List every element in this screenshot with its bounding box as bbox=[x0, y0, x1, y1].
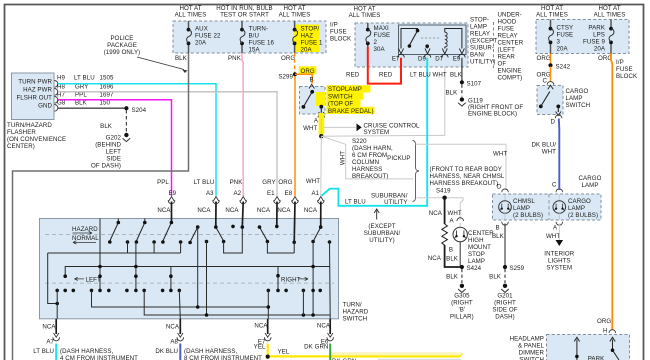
wire vertical V2 bbox=[135, 242, 137, 290]
highlight stoplamp switch label bbox=[327, 85, 375, 114]
svg-text:OF DASH): OF DASH) bbox=[91, 163, 121, 170]
svg-text:H9: H9 bbox=[57, 75, 66, 82]
wire WHT S220 down to A1 bbox=[320, 136, 323, 196]
svg-text:PILLAR): PILLAR) bbox=[450, 314, 474, 321]
splice S419 bbox=[442, 196, 446, 200]
CARGO LAMP title bbox=[579, 175, 602, 189]
svg-text:BLK: BLK bbox=[175, 55, 188, 62]
svg-text:B: B bbox=[496, 225, 500, 232]
svg-text:ENGINE BLOCK): ENGINE BLOCK) bbox=[468, 110, 517, 117]
wire DK BLU A8 down bbox=[179, 344, 181, 360]
svg-text:FLSHR OUT: FLSHR OUT bbox=[16, 94, 52, 101]
entry wires into box (NCA) bbox=[172, 202, 321, 243]
dashed contact line (lower) bbox=[45, 282, 334, 284]
svg-text:PNK: PNK bbox=[230, 179, 244, 186]
svg-text:6 CM FROM: 6 CM FROM bbox=[352, 152, 387, 159]
svg-text:HARNESS: HARNESS bbox=[352, 166, 382, 173]
svg-text:BLOCK: BLOCK bbox=[330, 36, 352, 43]
ground G202 bbox=[91, 133, 130, 170]
svg-text:BLK: BLK bbox=[450, 72, 463, 79]
svg-text:DK BLU: DK BLU bbox=[155, 348, 178, 355]
svg-text:NCA: NCA bbox=[257, 207, 271, 214]
svg-text:CARGO: CARGO bbox=[579, 175, 602, 182]
resistor (NCA branch) bbox=[428, 198, 462, 267]
header HOT AT ALL TIMES (park) bbox=[594, 5, 626, 19]
lower deck contact dots bbox=[55, 289, 322, 293]
svg-text:PARK: PARK bbox=[588, 356, 605, 360]
svg-text:HAZARD: HAZARD bbox=[72, 226, 98, 233]
svg-text:WHT: WHT bbox=[542, 149, 556, 156]
svg-text:LEFT: LEFT bbox=[86, 276, 102, 283]
svg-text:STOPLAMP: STOPLAMP bbox=[328, 86, 362, 93]
lamps box CHMSL + CARGO bbox=[493, 194, 602, 220]
svg-text:LT BLU: LT BLU bbox=[194, 179, 215, 186]
wire U-connector A3/A2 bbox=[224, 229, 243, 254]
svg-text:SYSTEM: SYSTEM bbox=[364, 129, 390, 136]
svg-text:20A: 20A bbox=[195, 40, 207, 47]
splice S259 bbox=[503, 265, 525, 272]
svg-text:NCA: NCA bbox=[42, 324, 56, 331]
splice S220 bbox=[319, 134, 323, 138]
svg-text:FLASHER: FLASHER bbox=[7, 129, 36, 136]
svg-text:ALL TIMES: ALL TIMES bbox=[594, 12, 626, 19]
splice S107 bbox=[460, 80, 482, 87]
wire vertical left-contact drop bbox=[206, 242, 208, 316]
svg-text:RELAY: RELAY bbox=[470, 31, 490, 38]
wire bus (contact stubs to bus) bbox=[48, 242, 181, 304]
svg-text:NCA: NCA bbox=[277, 207, 291, 214]
wire YEL E7 to bottom run bbox=[266, 344, 462, 360]
svg-text:ORG: ORG bbox=[597, 318, 611, 325]
svg-text:E9: E9 bbox=[169, 190, 177, 197]
svg-text:BLK: BLK bbox=[492, 233, 505, 240]
svg-text:TURN-: TURN- bbox=[249, 26, 269, 33]
hazard/normal legend bbox=[72, 226, 99, 244]
svg-text:RIGHT: RIGHT bbox=[281, 276, 301, 283]
svg-text:LAMP: LAMP bbox=[470, 24, 487, 31]
svg-text:D: D bbox=[550, 118, 555, 125]
svg-text:HAZ PWR: HAZ PWR bbox=[23, 86, 52, 93]
svg-text:S299: S299 bbox=[278, 73, 293, 80]
underhood fuse relay center box bbox=[355, 23, 468, 67]
svg-text:UTILITY): UTILITY) bbox=[470, 59, 496, 66]
header HOT AT ALL TIMES (ctsy) bbox=[536, 5, 568, 19]
svg-text:SUBURBAN/: SUBURBAN/ bbox=[364, 230, 401, 237]
svg-text:UNDER-: UNDER- bbox=[498, 12, 522, 19]
svg-text:ALL TIMES: ALL TIMES bbox=[175, 12, 207, 19]
wire BLK aux fuse down-around-left bbox=[13, 53, 189, 360]
svg-text:TEST OR START: TEST OR START bbox=[220, 12, 269, 19]
svg-text:(2 BULBS): (2 BULBS) bbox=[568, 212, 598, 219]
stop lamp relay label bbox=[470, 17, 497, 66]
relay terminal arrows E7 D9 D7 E9 bbox=[398, 49, 466, 58]
svg-text:D7: D7 bbox=[435, 56, 444, 63]
svg-text:UTILITY: UTILITY bbox=[384, 199, 407, 206]
wire WHT S220 to relay D7 bbox=[321, 58, 445, 136]
svg-text:YEL: YEL bbox=[278, 349, 290, 356]
entry labels GRY E1 bbox=[257, 179, 276, 214]
svg-text:LAMP: LAMP bbox=[581, 182, 598, 189]
svg-text:DK BLU/: DK BLU/ bbox=[532, 142, 557, 149]
svg-text:WHT: WHT bbox=[448, 210, 462, 217]
wire WHT S220 dash-harness branch bbox=[321, 136, 413, 179]
svg-text:E7: E7 bbox=[392, 56, 400, 63]
header HOT AT ALL TIMES (maxi) bbox=[349, 6, 381, 20]
svg-text:BLK: BLK bbox=[446, 90, 459, 97]
left legend arrow bbox=[75, 276, 102, 283]
switch blades (upper deck) bbox=[110, 219, 321, 243]
headlamp switch label bbox=[510, 336, 545, 360]
svg-text:CHMSL: CHMSL bbox=[513, 198, 535, 205]
splice S299 bbox=[278, 72, 297, 80]
entry labels PNK A2 bbox=[225, 179, 243, 214]
svg-text:STOP: STOP bbox=[468, 251, 485, 258]
wire LT BLU A7 down bbox=[55, 344, 57, 360]
wire PNK turn fuse to A2 bbox=[228, 53, 243, 196]
svg-text:BAN/: BAN/ bbox=[470, 52, 485, 59]
stoplamp switch A terminal bbox=[314, 105, 325, 125]
svg-text:G305: G305 bbox=[454, 293, 470, 300]
exit E7 connector bbox=[254, 319, 271, 351]
fuse TURN-B/U FUSE 16 15A bbox=[240, 21, 274, 54]
front-to-rear harness note bbox=[430, 166, 505, 195]
wire DK GRN E6 down bbox=[329, 344, 331, 360]
ground G305 bbox=[450, 284, 474, 321]
wire ORG ctsy fuse to S242 bbox=[537, 54, 551, 65]
svg-text:SUBUR-: SUBUR- bbox=[470, 45, 494, 52]
svg-text:RELAY: RELAY bbox=[498, 33, 518, 40]
svg-text:SWITCH: SWITCH bbox=[343, 316, 368, 323]
svg-text:B: B bbox=[310, 77, 314, 84]
svg-text:NCA: NCA bbox=[428, 255, 442, 262]
SUBURBAN/UTILITY label bbox=[371, 193, 408, 206]
CHMSL lamp terminals D/B bbox=[502, 189, 509, 225]
svg-text:DASH): DASH) bbox=[495, 314, 515, 321]
svg-text:(DASH HARNESS,: (DASH HARNESS, bbox=[184, 348, 238, 355]
splice S242 bbox=[548, 63, 570, 70]
turn/hazard switch label bbox=[343, 302, 369, 323]
wire WHT stoplamp A to S220 bbox=[303, 119, 321, 136]
svg-text:E1: E1 bbox=[267, 190, 275, 197]
svg-text:HEADLAMP: HEADLAMP bbox=[510, 336, 544, 343]
svg-text:B/U: B/U bbox=[249, 33, 259, 40]
svg-text:ALL TIMES: ALL TIMES bbox=[279, 12, 311, 19]
wire vertical V3 bbox=[170, 267, 172, 291]
stationary contact dots (upper deck) bbox=[108, 240, 331, 245]
svg-text:NCA: NCA bbox=[317, 323, 331, 330]
svg-text:DIMMER: DIMMER bbox=[519, 350, 545, 357]
svg-text:OF: OF bbox=[498, 61, 507, 68]
header HOT AT ALL TIMES (stop/haz) bbox=[279, 5, 311, 19]
svg-text:(DASH HARNESS,: (DASH HARNESS, bbox=[60, 348, 114, 355]
svg-text:LPS: LPS bbox=[593, 32, 605, 39]
svg-text:WHT: WHT bbox=[493, 151, 507, 158]
wire BLK S424 to G305 (dashed) bbox=[446, 269, 462, 283]
svg-text:MAXI: MAXI bbox=[374, 25, 390, 32]
svg-text:PICKUP: PICKUP bbox=[387, 155, 410, 162]
svg-text:COMPT): COMPT) bbox=[498, 75, 523, 82]
fuse MAXI FUSE 2 30A bbox=[366, 23, 390, 53]
svg-text:LAMP: LAMP bbox=[568, 205, 585, 212]
svg-text:LIGHTS: LIGHTS bbox=[548, 258, 571, 265]
svg-text:HAZARD: HAZARD bbox=[343, 309, 369, 316]
stop lamp relay U1 bbox=[399, 25, 467, 55]
svg-text:ENGINE: ENGINE bbox=[498, 68, 522, 75]
svg-text:FUSE 22: FUSE 22 bbox=[195, 33, 221, 40]
svg-text:WHT: WHT bbox=[433, 72, 447, 79]
svg-text:D: D bbox=[497, 184, 502, 191]
wire ORG park fuse to headlamp dimmer H bbox=[597, 54, 612, 335]
entry labels ORG E8 bbox=[277, 179, 292, 214]
svg-text:LAMP: LAMP bbox=[468, 258, 485, 265]
svg-text:(DASH HARN,: (DASH HARN, bbox=[352, 145, 393, 152]
splice S424 bbox=[460, 265, 482, 272]
svg-text:H: H bbox=[603, 328, 608, 335]
svg-text:ALL TIMES: ALL TIMES bbox=[349, 12, 381, 19]
svg-text:PNK: PNK bbox=[228, 55, 242, 62]
highlight stop/haz fuse bbox=[294, 25, 320, 53]
svg-text:B: B bbox=[449, 247, 453, 254]
svg-text:CENTER): CENTER) bbox=[7, 143, 35, 150]
junction dots on hazard feed bbox=[98, 265, 315, 269]
underhood fuse relay center label bbox=[498, 12, 524, 82]
svg-text:LT BLU: LT BLU bbox=[410, 72, 431, 79]
svg-text:I/P: I/P bbox=[330, 22, 338, 29]
wire BLK S204 to G202 (dashed) bbox=[100, 110, 126, 132]
fuse AUX FUSE 22 20A bbox=[187, 21, 221, 53]
wire ORG stop fuse to S299 (dashed) bbox=[281, 53, 295, 73]
wire A7 drop bbox=[57, 290, 303, 318]
svg-text:S424: S424 bbox=[467, 265, 482, 272]
svg-text:HAZ: HAZ bbox=[301, 33, 314, 40]
svg-text:HARNESS BREAKOUT): HARNESS BREAKOUT) bbox=[430, 180, 499, 187]
svg-text:I/P: I/P bbox=[616, 59, 624, 66]
svg-text:(2 BULBS): (2 BULBS) bbox=[513, 212, 543, 219]
center high mount stop lamp bbox=[446, 218, 494, 267]
svg-text:3: 3 bbox=[557, 39, 561, 46]
svg-text:NCA: NCA bbox=[254, 323, 268, 330]
turn/hazard flasher bbox=[7, 73, 66, 150]
svg-text:ORG: ORG bbox=[537, 55, 551, 62]
svg-text:(EXCEPT: (EXCEPT bbox=[368, 223, 395, 230]
exit A7 connector bbox=[33, 319, 59, 355]
highlight ORG label at S299 bbox=[299, 66, 317, 74]
entry labels WHT A1 bbox=[304, 178, 320, 214]
svg-text:(BEHIND: (BEHIND bbox=[95, 142, 121, 149]
wire PPL flasher to E9 bbox=[58, 100, 172, 196]
harness brace bbox=[413, 141, 420, 202]
wire ORG S242 to cargo lamp switch C bbox=[537, 67, 554, 85]
svg-text:FUSE: FUSE bbox=[374, 32, 391, 39]
svg-text:SWITCH: SWITCH bbox=[328, 93, 353, 100]
svg-text:PACKAGE: PACKAGE bbox=[107, 42, 137, 49]
svg-text:PARK: PARK bbox=[588, 25, 605, 32]
wire RED maxi fuse to E7 bbox=[346, 47, 401, 84]
svg-text:HIGH: HIGH bbox=[468, 237, 484, 244]
svg-text:YEL: YEL bbox=[254, 343, 266, 350]
svg-text:STOP-: STOP- bbox=[470, 17, 489, 24]
svg-text:NCA: NCA bbox=[166, 324, 180, 331]
svg-text:SIDE: SIDE bbox=[106, 156, 121, 163]
labels NCA WHT at S419 bbox=[429, 210, 462, 225]
svg-text:15A: 15A bbox=[249, 47, 261, 54]
wire BLK S259 to G201 (dashed) bbox=[489, 269, 505, 283]
lower link dots bbox=[55, 302, 315, 317]
svg-text:LT BLU: LT BLU bbox=[74, 75, 95, 82]
highlight WHT wire bar bbox=[319, 113, 325, 135]
svg-text:TURN/: TURN/ bbox=[343, 302, 362, 309]
svg-text:FUSE 1: FUSE 1 bbox=[301, 40, 323, 47]
divider dashed line bbox=[493, 22, 495, 68]
svg-text:SIDE OF: SIDE OF bbox=[492, 307, 517, 314]
svg-text:INTERIOR: INTERIOR bbox=[544, 251, 574, 258]
svg-text:A: A bbox=[450, 218, 455, 225]
svg-text:GRY: GRY bbox=[262, 179, 275, 186]
ground G119 bbox=[458, 97, 523, 117]
svg-text:ORG: ORG bbox=[281, 55, 295, 62]
svg-text:BRAKE PEDAL): BRAKE PEDAL) bbox=[328, 108, 374, 115]
wire U-connector E1/E8 bbox=[267, 242, 294, 254]
svg-text:E9: E9 bbox=[453, 56, 461, 63]
S220 note bbox=[352, 138, 393, 180]
svg-text:CARGO: CARGO bbox=[566, 88, 589, 95]
svg-text:FUSE: FUSE bbox=[557, 32, 574, 39]
svg-text:(ON CONVENIENCE: (ON CONVENIENCE bbox=[7, 136, 66, 143]
svg-text:LEFT: LEFT bbox=[106, 149, 122, 156]
svg-text:G201: G201 bbox=[497, 293, 513, 300]
svg-text:20A: 20A bbox=[594, 46, 606, 53]
svg-text:CENTER: CENTER bbox=[498, 40, 524, 47]
svg-text:S242: S242 bbox=[556, 63, 571, 70]
CARGO lamp terminals C/A bbox=[556, 189, 563, 225]
police package leader line bbox=[137, 57, 188, 73]
svg-text:(LEFT: (LEFT bbox=[498, 47, 516, 54]
wire BLK CHMSL B to S259 bbox=[492, 224, 505, 266]
header HOT IN RUN BULB TEST OR START bbox=[216, 5, 272, 19]
svg-text:WHT: WHT bbox=[303, 125, 317, 132]
wire DK BLU/WHT cargo switch D to cargo lamp C bbox=[532, 115, 562, 190]
svg-text:BLOCK: BLOCK bbox=[616, 73, 638, 80]
svg-text:SWITCH: SWITCH bbox=[566, 102, 591, 109]
wire BLK S107 to G119 (dashed) bbox=[446, 85, 462, 97]
fuse STOP/HAZ FUSE 1 20A bbox=[293, 21, 323, 54]
svg-text:A7: A7 bbox=[46, 339, 54, 346]
wire vertical 4th blade drop bbox=[197, 227, 199, 307]
svg-text:FUSE 9: FUSE 9 bbox=[583, 39, 605, 46]
pin labels H9 H8 H7 G8 bbox=[57, 75, 66, 107]
headlamp & panel dimmer switch bbox=[547, 330, 630, 360]
svg-text:A3: A3 bbox=[206, 190, 214, 197]
svg-text:S220: S220 bbox=[352, 138, 367, 145]
svg-text:BLK: BLK bbox=[489, 274, 502, 281]
wire labels LT BLU 1505 / GRY 1696 / PPL 1697 / BLK 150 bbox=[74, 75, 114, 107]
mid contact dots (y276) bbox=[63, 274, 279, 278]
svg-text:PPL: PPL bbox=[157, 179, 169, 186]
svg-text:NCA: NCA bbox=[157, 207, 171, 214]
svg-text:LAMP: LAMP bbox=[566, 95, 583, 102]
dashed contact line (upper) bbox=[45, 234, 334, 236]
svg-text:4 CM FROM INSTRUMENT: 4 CM FROM INSTRUMENT bbox=[60, 355, 138, 360]
svg-text:S259: S259 bbox=[510, 265, 525, 272]
right legend arrow bbox=[281, 276, 308, 283]
exit E6 connector bbox=[304, 319, 333, 351]
svg-text:TURN/HAZARD: TURN/HAZARD bbox=[7, 122, 52, 129]
svg-text:LT BLU: LT BLU bbox=[345, 199, 366, 206]
svg-text:POLICE: POLICE bbox=[110, 35, 133, 42]
wire vertical right end drop to E6 bbox=[329, 242, 332, 319]
svg-text:8 CM FROM INSTRUMENT: 8 CM FROM INSTRUMENT bbox=[184, 355, 262, 360]
turn/hazard switch box bbox=[40, 219, 339, 319]
wire right U-drop bbox=[277, 267, 279, 291]
svg-text:BLK: BLK bbox=[446, 256, 459, 263]
wire L3 lower link bbox=[144, 290, 330, 315]
svg-text:20A: 20A bbox=[557, 46, 569, 53]
wire LT BLU flasher to A3 bbox=[58, 84, 216, 196]
I/P fuse block box 1 bbox=[173, 21, 326, 53]
wire LT BLU relay D9 to turn/hazard A1 bbox=[322, 58, 431, 206]
svg-text:(FRONT TO REAR BODY: (FRONT TO REAR BODY bbox=[430, 166, 503, 173]
svg-text:'B': 'B' bbox=[459, 307, 466, 314]
svg-text:STOP/: STOP/ bbox=[301, 26, 320, 33]
wire WHT brace to CHMSL lamp D bbox=[416, 144, 507, 190]
entry labels PPL E9 bbox=[157, 179, 177, 214]
svg-text:WHT: WHT bbox=[340, 151, 347, 165]
wire L2 lower link bbox=[92, 290, 269, 318]
svg-text:NCA: NCA bbox=[225, 207, 239, 214]
svg-text:HOOD: HOOD bbox=[498, 19, 517, 26]
fuse CTSY FUSE 3 20A bbox=[549, 20, 574, 54]
dash harness note 2 bbox=[184, 348, 262, 360]
svg-text:SYSTEM: SYSTEM bbox=[546, 265, 572, 272]
wire vertical right blade drop bbox=[312, 242, 314, 316]
wire ORG S299 to stoplamp switch B bbox=[295, 68, 315, 84]
wire BLK relay E9 to S107 bbox=[450, 58, 463, 81]
svg-text:FUSE 16: FUSE 16 bbox=[249, 40, 275, 47]
wire WHT cargo A to interior lights bbox=[544, 224, 574, 272]
svg-text:RED: RED bbox=[346, 72, 360, 79]
svg-text:NCA: NCA bbox=[197, 207, 211, 214]
fuse PARK LPS FUSE 9 20A bbox=[583, 20, 614, 54]
wire vertical V1 bbox=[99, 219, 101, 291]
svg-text:A8: A8 bbox=[170, 339, 178, 346]
(EXCEPT SUBURBAN/UTILITY) note with arrow bbox=[364, 209, 401, 244]
svg-text:FUSE: FUSE bbox=[330, 29, 347, 36]
stoplamp switch box bbox=[300, 84, 326, 114]
splice S204 bbox=[124, 106, 146, 114]
wire long horizontal (hazard feed) bbox=[65, 267, 330, 277]
svg-text:COLUMN: COLUMN bbox=[352, 159, 379, 166]
I/P fuse block box 2 bbox=[536, 20, 629, 54]
svg-text:C: C bbox=[543, 78, 548, 85]
svg-text:NCA: NCA bbox=[304, 207, 318, 214]
svg-text:(RIGHT: (RIGHT bbox=[494, 300, 516, 307]
svg-text:(TOP OF: (TOP OF bbox=[328, 101, 353, 108]
svg-text:LAMP: LAMP bbox=[513, 205, 530, 212]
ground G201 bbox=[492, 284, 517, 321]
svg-text:LT BLU: LT BLU bbox=[33, 348, 54, 355]
svg-text:BLK: BLK bbox=[100, 123, 113, 130]
wire GRY flasher to E1 bbox=[58, 92, 277, 196]
svg-text:E8: E8 bbox=[285, 190, 293, 197]
entry connectors (arc+chevron) bbox=[168, 197, 324, 204]
svg-text:FUSE: FUSE bbox=[616, 66, 633, 73]
svg-text:BLK: BLK bbox=[446, 274, 459, 281]
svg-text:S204: S204 bbox=[132, 107, 147, 114]
svg-text:NCA: NCA bbox=[429, 210, 443, 217]
svg-text:HARNESS, NEAR CHMSL: HARNESS, NEAR CHMSL bbox=[430, 173, 505, 180]
I/P fuse block label bbox=[330, 22, 352, 43]
svg-text:WHT: WHT bbox=[306, 178, 320, 185]
